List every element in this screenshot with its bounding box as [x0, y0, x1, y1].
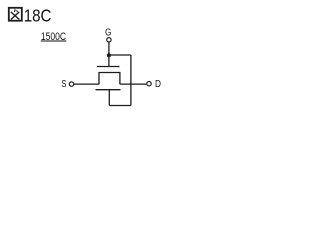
wire bottom run	[109, 105, 131, 107]
wire channel to D	[120, 83, 146, 85]
wire G terminal to junction	[108, 42, 110, 55]
wire junction to top gate	[108, 55, 110, 66]
svg-text:S: S	[61, 79, 66, 90]
svg-text:18C: 18C	[24, 5, 52, 25]
drain terminal circle D	[147, 82, 151, 86]
channel bump electrode	[99, 73, 120, 85]
wire S to channel	[74, 83, 99, 85]
junction dot	[107, 53, 111, 57]
svg-text:D: D	[155, 79, 161, 90]
figure title kanji ZU box	[9, 8, 22, 21]
source terminal circle S	[69, 82, 73, 86]
gate terminal circle G	[107, 38, 111, 42]
bottom gate bar	[96, 89, 121, 91]
svg-text:G: G	[105, 28, 111, 39]
wire right loop vertical	[130, 55, 132, 106]
wire junction to right loop	[109, 54, 131, 56]
wire bottom gate lead	[108, 90, 110, 106]
top gate bar	[97, 66, 120, 68]
